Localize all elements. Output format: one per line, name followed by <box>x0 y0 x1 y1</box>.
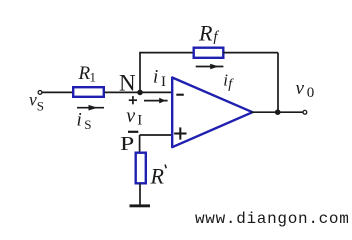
resistor Rf <box>194 48 224 58</box>
svg-text:S: S <box>84 117 91 132</box>
label Rf <box>198 21 219 46</box>
wire feedback down to output <box>277 53 279 113</box>
current arrow if <box>196 64 224 70</box>
polarity minus at P <box>128 131 138 133</box>
polarity plus at N <box>129 96 137 104</box>
op-amp U1 <box>172 78 252 148</box>
op-amp minus input marking <box>176 94 184 96</box>
svg-text:I: I <box>161 74 166 90</box>
svg-text:R: R <box>150 164 165 189</box>
node N junction <box>137 90 143 96</box>
label iS <box>77 110 92 133</box>
svg-text:www.diangon.com: www.diangon.com <box>195 210 350 228</box>
label vI <box>126 105 142 129</box>
svg-text:I: I <box>137 112 142 128</box>
wire R' to ground <box>139 184 141 206</box>
source terminal vS <box>38 91 42 95</box>
svg-text:v: v <box>126 105 135 127</box>
label vS <box>29 90 44 114</box>
svg-text:v: v <box>29 90 37 110</box>
label i1 <box>153 67 166 91</box>
op-amp plus input marking <box>174 127 186 139</box>
wire feedback top left <box>139 52 194 54</box>
output terminal vO <box>303 110 307 114</box>
wire R1 to op-amp inverting input <box>105 91 172 93</box>
wire P to op-amp noninverting input <box>140 134 172 136</box>
resistor R1 <box>73 87 104 97</box>
svg-text:S: S <box>37 99 44 114</box>
svg-text:i: i <box>77 110 82 131</box>
svg-text:0: 0 <box>307 85 315 101</box>
svg-text:N: N <box>119 71 136 96</box>
wire output <box>251 111 303 113</box>
label R1 <box>78 63 97 85</box>
svg-text:R: R <box>198 21 213 46</box>
label if <box>223 71 234 93</box>
svg-text:v: v <box>296 78 305 99</box>
svg-text:1: 1 <box>90 70 97 85</box>
svg-text:i: i <box>153 67 158 88</box>
label R' <box>150 164 167 189</box>
resistor R' <box>136 153 146 184</box>
label vO <box>296 78 315 101</box>
wire input to R1 <box>42 91 73 93</box>
wire feedback top right <box>223 52 278 54</box>
ground <box>130 204 151 207</box>
wire P down to R' <box>139 135 141 153</box>
current arrow i1 <box>144 98 168 104</box>
current arrow iS <box>77 105 104 111</box>
wire feedback up from node N <box>139 53 141 93</box>
svg-text:P: P <box>120 133 134 155</box>
output node junction <box>275 109 281 115</box>
